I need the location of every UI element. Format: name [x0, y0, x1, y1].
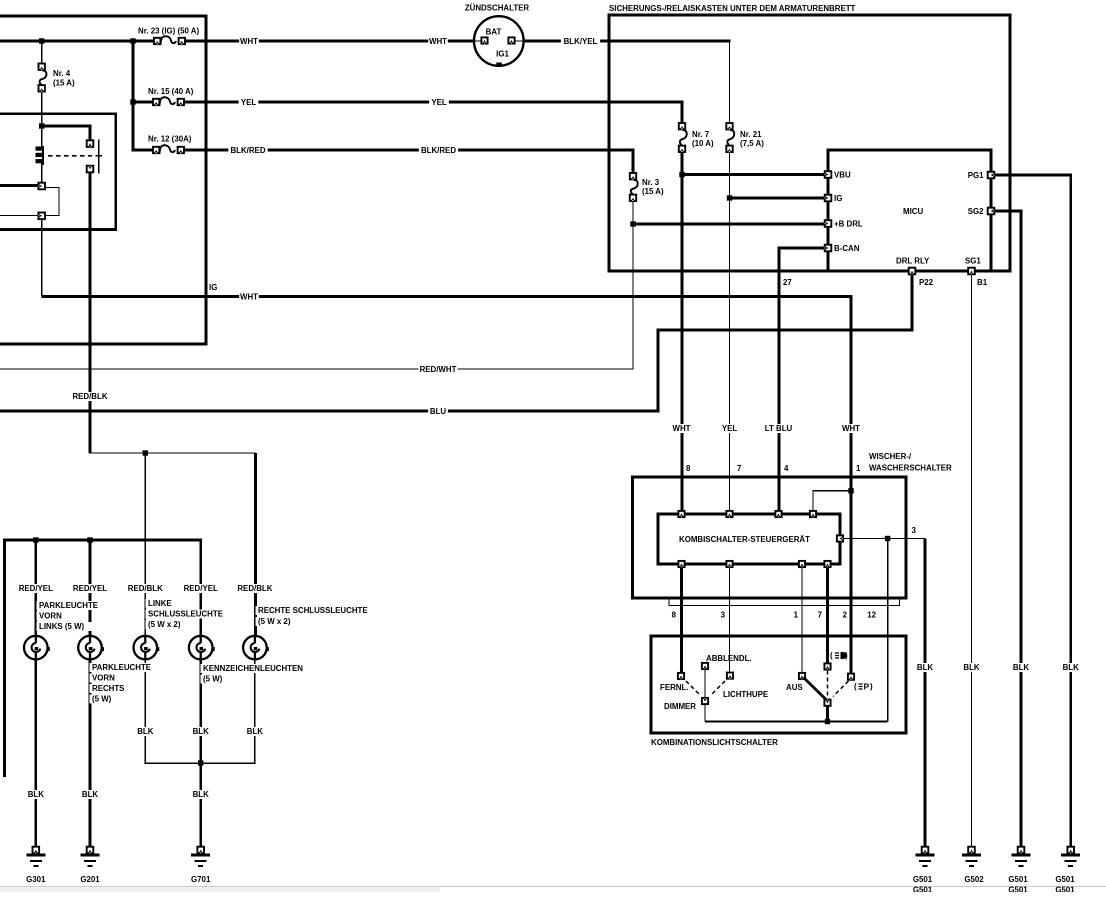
label RED/YEL lamp2 — [70, 584, 109, 593]
node H1 junction at license lamp ground join — [198, 760, 203, 765]
svg-text:PARKLEUCHTE: PARKLEUCHTE — [92, 663, 151, 672]
svg-text:DRL RLY: DRL RLY — [896, 257, 930, 266]
wire lamp3 BLK down to license lamp join — [145, 660, 199, 764]
control unit bottom pin (7) — [824, 561, 830, 567]
wire PG1 to ground G501 (far right) — [989, 175, 1071, 847]
contact DIMMER common — [702, 698, 708, 704]
svg-text:27: 27 — [783, 278, 792, 287]
svg-text:Nr. 3: Nr. 3 — [642, 178, 660, 187]
pin VBU on MICU — [825, 171, 832, 178]
wire WHT battery feed (main bus y=41) — [0, 40, 731, 43]
svg-text:4: 4 — [784, 464, 789, 473]
fuse Nr.12 (30A) — [153, 144, 185, 156]
relay box (inside main box, clipped at left) — [0, 114, 116, 230]
svg-text:WHT: WHT — [240, 37, 258, 46]
label YEL 2 — [429, 98, 449, 107]
svg-text:RED/BLK: RED/BLK — [128, 584, 163, 593]
dimmer dashed arm to FERNL — [686, 681, 699, 694]
svg-text:KENNZEICHENLEUCHTEN: KENNZEICHENLEUCHTEN — [203, 664, 303, 673]
svg-text:YEL: YEL — [241, 98, 257, 107]
label WHT column 2 — [841, 424, 861, 433]
ground G201 — [87, 847, 94, 854]
svg-text:DIMMER: DIMMER — [664, 702, 696, 711]
svg-text:G502: G502 — [964, 875, 984, 884]
svg-text:G501: G501 — [1008, 886, 1028, 893]
svg-text:Nr. 21: Nr. 21 — [740, 130, 762, 139]
label BLK right 4 — [1061, 663, 1081, 672]
light switch dashed arm to headlight contact — [827, 671, 829, 698]
wire RED/BLK thin down to lamp3 (x=145.3) — [144, 453, 146, 636]
svg-text:IG1: IG1 — [496, 50, 509, 59]
svg-text:(5 W x 2): (5 W x 2) — [148, 620, 181, 629]
svg-text:): ) — [845, 651, 848, 660]
svg-text:LINKE: LINKE — [148, 599, 172, 608]
svg-text:8: 8 — [686, 464, 691, 473]
label parking position symbol — [854, 682, 873, 692]
fuse Nr.15 (40A) — [153, 96, 185, 108]
svg-text:YEL: YEL — [722, 424, 738, 433]
pin +B DRL on MICU — [825, 220, 832, 227]
label BLK lamp2 — [80, 790, 100, 799]
ignition switch IG1 terminal — [508, 37, 514, 43]
wire VBU to MICU — [682, 173, 826, 176]
svg-text:WHT: WHT — [673, 424, 691, 433]
svg-text:BLK/RED: BLK/RED — [230, 146, 265, 155]
wire control unit bottom pin to AUS contact — [801, 564, 803, 673]
svg-text:P22: P22 — [919, 278, 934, 287]
lamp KENNZEICHENLEUCHTEN — [189, 636, 213, 660]
svg-text:G201: G201 — [80, 875, 100, 884]
label PARKLEUCHTE VORN LINKS — [37, 601, 96, 610]
svg-text:P: P — [864, 682, 870, 692]
svg-text:YEL: YEL — [431, 98, 447, 107]
wire lamp4 to ground G701 — [199, 660, 202, 848]
svg-text:LINKS (5 W): LINKS (5 W) — [39, 622, 85, 631]
svg-text:WISCHER-/: WISCHER-/ — [869, 452, 912, 461]
wire harness feed lower (left edge) to relay terminal — [0, 215, 39, 217]
wiper/washer switch box (WISCHER-/WASCHERSCHALTER) — [633, 477, 906, 598]
node A1 junction on main bus at fuse Nr.4 branch — [39, 38, 44, 43]
wire lamp2 feed down — [89, 540, 92, 636]
node F2 junction on pin-3 wire to light switch common — [885, 536, 890, 541]
wire fuse column x=133 down to Nr.15 and Nr.12 — [133, 41, 154, 150]
relay switch contact lower — [87, 166, 94, 173]
svg-text:WASCHERSCHALTER: WASCHERSCHALTER — [869, 464, 952, 473]
wire BLK/RED from fuse Nr.12 to fuse Nr.3 column — [184, 150, 633, 174]
svg-text:BLK: BLK — [917, 663, 934, 672]
svg-text:RED/YEL: RED/YEL — [73, 584, 107, 593]
svg-text:12: 12 — [867, 611, 876, 620]
node A4 junction inside relay box — [39, 123, 44, 128]
relay switch movable bar — [98, 140, 100, 174]
ignition switch BAT terminal — [481, 37, 487, 43]
light switch dashed arm to parking contact — [833, 681, 849, 697]
relay coil — [42, 146, 44, 165]
pin B-CAN on MICU — [825, 245, 832, 252]
label WHT on main bus — [239, 37, 259, 46]
label RECHTE SCHLUSSLEUCHTE — [256, 606, 364, 615]
node C1 junction at +B DRL branch on fuse Nr.3 column — [630, 221, 635, 226]
label RED/BLK lamp5 — [235, 584, 274, 593]
fuse Nr.4 (15A) — [36, 63, 48, 92]
svg-text:(5 W x 2): (5 W x 2) — [258, 617, 291, 626]
svg-text:(15 A): (15 A) — [642, 187, 664, 196]
pin PG1 on MICU — [988, 172, 995, 179]
svg-text:8: 8 — [672, 611, 677, 620]
control unit bottom pin (1) — [799, 561, 805, 567]
label RED/BLK lamp3 — [126, 584, 165, 593]
wire YEL from fuse Nr.15 to fuse Nr.7 column — [184, 102, 682, 123]
contact AUS — [799, 673, 805, 679]
wire pin 12 feed down to light switch common bus — [887, 539, 889, 722]
svg-text:RECHTS: RECHTS — [92, 684, 124, 693]
label KENNZEICHENLEUCHTEN — [201, 664, 299, 673]
combination switch control unit box (KOMBISCHALTER-STEUERGERAET) — [658, 514, 840, 564]
MICU unit box — [828, 150, 991, 271]
svg-text:WHT: WHT — [842, 424, 860, 433]
svg-text:BLK: BLK — [28, 790, 45, 799]
wire thin distribution y=453 to right tail lamp feed — [89, 452, 255, 454]
label BLK/YEL — [561, 37, 600, 46]
fuse/relay box (main under-dash box, clipped at left) — [0, 16, 206, 344]
node D1 junction lamp1 branch — [33, 537, 38, 542]
svg-text:SCHLUSSLEUCHTE: SCHLUSSLEUCHTE — [148, 610, 223, 619]
contact headlight symbol — [824, 663, 830, 669]
contact LICHTHUPE — [727, 673, 733, 679]
ground G502 — [968, 847, 975, 854]
svg-text:(: ( — [830, 651, 833, 660]
control unit top pin (link) — [810, 511, 816, 517]
label YEL column — [720, 424, 740, 433]
pin SG1 on MICU — [968, 268, 975, 275]
svg-text:3: 3 — [912, 526, 917, 535]
svg-text:AUS: AUS — [786, 683, 803, 692]
label BLK/RED 1 — [228, 146, 267, 155]
label WHT near ignition switch — [428, 37, 448, 46]
light switch common contact — [824, 700, 830, 706]
lamp PARKLEUCHTE VORN RECHTS — [78, 636, 102, 660]
svg-text:1: 1 — [794, 611, 799, 620]
svg-text:G501: G501 — [1055, 875, 1075, 884]
wire harness feed upper (left edge) to relay terminal — [0, 184, 39, 187]
pin SG2 on MICU — [988, 208, 995, 215]
label BLK G701 — [191, 790, 211, 799]
wire lamp1 to ground G301 — [34, 660, 37, 848]
lamp RECHTE SCHLUSSLEUCHTE — [243, 636, 267, 660]
label BLK right 2 — [962, 663, 982, 672]
control unit top pin (4 LT BLU) — [775, 511, 781, 517]
svg-text:LICHTHUPE: LICHTHUPE — [723, 690, 768, 699]
svg-text:3: 3 — [721, 611, 726, 620]
wire BLU (y=411) from left edge to DRL RLY pin P22 — [0, 272, 912, 411]
fuse Nr.3 (15A) — [627, 173, 639, 202]
svg-text:G501: G501 — [1008, 875, 1028, 884]
wire fuse Nr.4 branch down into relay — [41, 41, 43, 66]
label BLK right 3 — [1011, 663, 1031, 672]
label PARKLEUCHTE VORN RECHTS — [90, 663, 149, 672]
label RED/BLK at relay output — [70, 392, 109, 401]
svg-text:PARKLEUCHTE: PARKLEUCHTE — [39, 601, 98, 610]
control unit right pin (3) — [837, 535, 843, 541]
wire SG1/B1 to ground G502 — [971, 273, 973, 847]
svg-text:BLK/RED: BLK/RED — [421, 146, 456, 155]
node A3 junction at fuse Nr.15 branch — [130, 99, 135, 104]
svg-text:BAT: BAT — [486, 28, 502, 37]
label LT BLU column — [761, 424, 795, 433]
svg-text:WHT: WHT — [429, 37, 447, 46]
svg-text:BLK: BLK — [963, 663, 980, 672]
wire BLK down to ground G501 (x=925) — [924, 539, 927, 848]
svg-text:VORN: VORN — [39, 612, 62, 621]
label YEL 1 — [239, 98, 259, 107]
light switch solid arm AUS to common — [804, 678, 827, 701]
node E2 junction IG branch — [727, 195, 732, 200]
label headlight position symbol — [830, 651, 848, 660]
svg-text:Nr. 23 (IG) (50 A): Nr. 23 (IG) (50 A) — [138, 27, 199, 36]
svg-text:Nr. 12 (30A): Nr. 12 (30A) — [148, 135, 192, 144]
fuse Nr.7 (10A) — [676, 123, 688, 153]
ground G301 — [33, 847, 40, 854]
wire fuse Nr.21 output down (YEL) to wiper switch pin 7 — [729, 152, 731, 514]
svg-text:B-CAN: B-CAN — [834, 244, 860, 253]
svg-text:SICHERUNGS-/RELAISKASTEN UNTER: SICHERUNGS-/RELAISKASTEN UNTER DEM ARMAT… — [609, 4, 856, 13]
svg-text:ZÜNDSCHALTER: ZÜNDSCHALTER — [465, 4, 530, 13]
svg-text:IG: IG — [834, 194, 842, 203]
svg-text:G501: G501 — [913, 886, 933, 893]
lamp LINKE SCHLUSSLEUCHTE — [134, 636, 158, 660]
svg-text:RED/BLK: RED/BLK — [237, 584, 272, 593]
label RED/WHT — [418, 365, 457, 374]
ignition switch wire stubs — [474, 40, 481, 42]
label LINKE SCHLUSSLEUCHTE — [146, 599, 175, 608]
label RED/YEL lamp1 — [16, 584, 55, 593]
svg-text:BLK: BLK — [193, 727, 210, 736]
control unit bottom pin (3) — [726, 561, 732, 567]
svg-text:RECHTE SCHLUSSLEUCHTE: RECHTE SCHLUSSLEUCHTE — [258, 606, 368, 615]
contact FERNL. — [678, 673, 684, 679]
svg-text:LT BLU: LT BLU — [765, 424, 793, 433]
wire IG WHT from box edge to wiper switch (y=296.5) — [42, 297, 851, 491]
svg-text:Nr. 7: Nr. 7 — [692, 130, 710, 139]
svg-text:BLK: BLK — [193, 790, 210, 799]
control unit top pin (7) — [726, 511, 732, 517]
svg-text:G301: G301 — [26, 875, 46, 884]
ignition switch ZUENDSCHALTER body — [474, 16, 524, 66]
fuse Nr.21 (7.5A) — [724, 123, 736, 153]
svg-text:IG: IG — [209, 283, 217, 292]
label BLK lamp5 — [245, 727, 265, 736]
label BLU — [428, 407, 448, 416]
combination light switch box (KOMBINATIONSLICHTSCHALTER) — [651, 636, 906, 733]
wire relay coil upper lead — [41, 128, 43, 150]
svg-text:RED/YEL: RED/YEL — [184, 584, 218, 593]
svg-text:KOMBISCHALTER-STEUERGERÄT: KOMBISCHALTER-STEUERGERÄT — [679, 535, 810, 544]
dimmer link ABBLENDL to common — [704, 669, 706, 698]
svg-text:BLK: BLK — [1063, 663, 1080, 672]
contact parking symbol — [848, 674, 854, 680]
control unit bottom pin (8) — [678, 561, 684, 567]
relay actuation dashed link — [48, 155, 92, 157]
svg-text:G701: G701 — [191, 875, 211, 884]
ground G501 (BLK x=925) — [922, 847, 929, 854]
wire RED/WHT (y=369) from left edge up to fuse Nr.3 — [0, 200, 633, 369]
node E1 junction VBU branch — [679, 172, 684, 177]
label WHT column — [672, 424, 692, 433]
wire fuse Nr.7 output to VBU and down to wiper switch pin 8 — [681, 152, 684, 514]
contact ABBLENDL. — [702, 663, 708, 669]
wire loop joining relay connector terminals — [45, 188, 59, 216]
svg-text:G501: G501 — [913, 875, 933, 884]
relay connector terminal upper — [38, 183, 45, 190]
label BLK right 1 — [915, 663, 935, 672]
wire from relay connector down to IG output corner — [41, 219, 43, 297]
svg-text:2: 2 — [843, 611, 848, 620]
connector bar below wiper switch box — [669, 599, 900, 606]
wire relay coil feed to switch contact — [42, 126, 90, 142]
svg-text:1: 1 — [856, 464, 861, 473]
svg-text:(10 A): (10 A) — [692, 139, 714, 148]
label BLK lamp3 — [135, 727, 155, 736]
wire link from WHT column to control unit top pin 4 — [813, 491, 851, 514]
control unit top pin (8) — [678, 511, 684, 517]
svg-text:): ) — [870, 682, 873, 691]
label BLK/RED 2 — [419, 146, 458, 155]
svg-text:+B DRL: +B DRL — [834, 220, 863, 229]
node F1 junction WHT column to control unit pin — [848, 488, 853, 493]
svg-text:FERNL.: FERNL. — [660, 683, 689, 692]
wire dimmer switch common riser — [704, 669, 706, 722]
node B1 junction on y=453 line (license lamp branch) — [143, 450, 148, 455]
svg-text:(5 W): (5 W) — [92, 695, 112, 704]
pin DRL RLY on MICU — [909, 268, 916, 275]
svg-text:SG2: SG2 — [968, 207, 984, 216]
ground G701 — [197, 847, 204, 854]
svg-text:BLK: BLK — [247, 727, 264, 736]
pin IG on MICU — [825, 195, 832, 202]
wire BLK/YEL drop to fuse Nr.21 — [729, 41, 731, 123]
svg-text:Nr. 15 (40 A): Nr. 15 (40 A) — [148, 87, 194, 96]
wire control unit bottom pin to headlight-symbol contact — [826, 564, 829, 664]
wire WHT column continues to combination light switch lamp contact — [850, 491, 853, 674]
wire SG2 to ground G501 — [989, 211, 1021, 847]
label RED/YEL lamp4 — [181, 584, 220, 593]
dimmer dashed arm to LICHTHUPE — [711, 681, 725, 695]
svg-text:7: 7 — [818, 611, 823, 620]
label BLK lamp1 — [26, 790, 46, 799]
wire RED/YEL lamp bus (y=540) with stub down at left end — [5, 540, 201, 777]
wire IG to MICU — [730, 197, 827, 200]
svg-text:PG1: PG1 — [968, 171, 984, 180]
node G1 junction of light switch common — [825, 719, 830, 724]
svg-text:(7,5 A): (7,5 A) — [740, 139, 764, 148]
svg-text:MICU: MICU — [903, 207, 923, 216]
svg-text:(5 W): (5 W) — [203, 675, 223, 684]
fuse Nr.23 (IG)(50A) — [154, 35, 186, 47]
wire RED/BLK down to left tail lamp (x=255.4) — [254, 453, 257, 636]
wire lamp2 to ground G201 — [89, 660, 92, 848]
svg-text:Nr. 4: Nr. 4 — [53, 69, 71, 78]
svg-text:VBU: VBU — [834, 171, 851, 180]
label BLK lamp4 upper — [191, 727, 211, 736]
wire relay switch output down (RED/BLK) — [89, 169, 92, 453]
relay switch contact upper — [87, 140, 94, 147]
svg-text:BLU: BLU — [430, 407, 447, 416]
label WHT on IG wire — [239, 293, 259, 302]
svg-text:BLK/YEL: BLK/YEL — [564, 37, 598, 46]
svg-text:BLK: BLK — [1013, 663, 1030, 672]
wire lamp1 feed down — [34, 540, 37, 636]
svg-text:BLK: BLK — [137, 727, 154, 736]
ground G501 (PG1) — [1067, 847, 1074, 854]
svg-text:(15 A): (15 A) — [53, 79, 75, 88]
svg-text:KOMBINATIONSLICHTSCHALTER: KOMBINATIONSLICHTSCHALTER — [651, 738, 778, 747]
wire relay coil lower lead to connector terminal — [41, 163, 43, 184]
wire control unit bottom pin to LICHTHUPE contact — [729, 564, 731, 673]
svg-text:VORN: VORN — [92, 674, 115, 683]
svg-text:BLK: BLK — [82, 790, 99, 799]
wire light switch common riser — [826, 705, 829, 722]
wire B-CAN from MICU down through pin 27 to wiper switch pin 4 — [779, 248, 826, 514]
svg-text:ABBLENDL.: ABBLENDL. — [706, 654, 752, 663]
wire control unit output pin 3 to BLK ground wire — [841, 538, 925, 540]
wire lamp5 BLK down to license lamp join — [202, 660, 255, 764]
svg-text:B1: B1 — [977, 278, 988, 287]
fuse/relay box under dashboard (SICHERUNGS-/RELAISKASTEN) — [609, 15, 1010, 271]
svg-text:G501: G501 — [1055, 886, 1075, 893]
svg-text:RED/WHT: RED/WHT — [420, 365, 457, 374]
svg-text:RED/YEL: RED/YEL — [19, 584, 53, 593]
svg-text:SG1: SG1 — [965, 257, 981, 266]
wire control unit bottom pin to FERNL contact — [680, 564, 683, 673]
node D2 junction lamp2 branch — [87, 537, 92, 542]
node A2 junction on main bus at fuse column branch — [130, 38, 135, 43]
lamp PARKLEUCHTE VORN LINKS — [24, 636, 48, 660]
wire light switch common bus (y=721.5) — [705, 721, 888, 723]
svg-text:WHT: WHT — [240, 293, 258, 302]
svg-text:RED/BLK: RED/BLK — [72, 392, 107, 401]
wire fuse Nr.3 output (+B DRL) to MICU — [633, 223, 826, 226]
svg-text:(: ( — [854, 682, 857, 691]
page edge line — [0, 886, 1106, 888]
ground G501 (SG2) — [1018, 847, 1025, 854]
svg-text:7: 7 — [737, 464, 742, 473]
relay connector terminal lower — [38, 213, 45, 220]
